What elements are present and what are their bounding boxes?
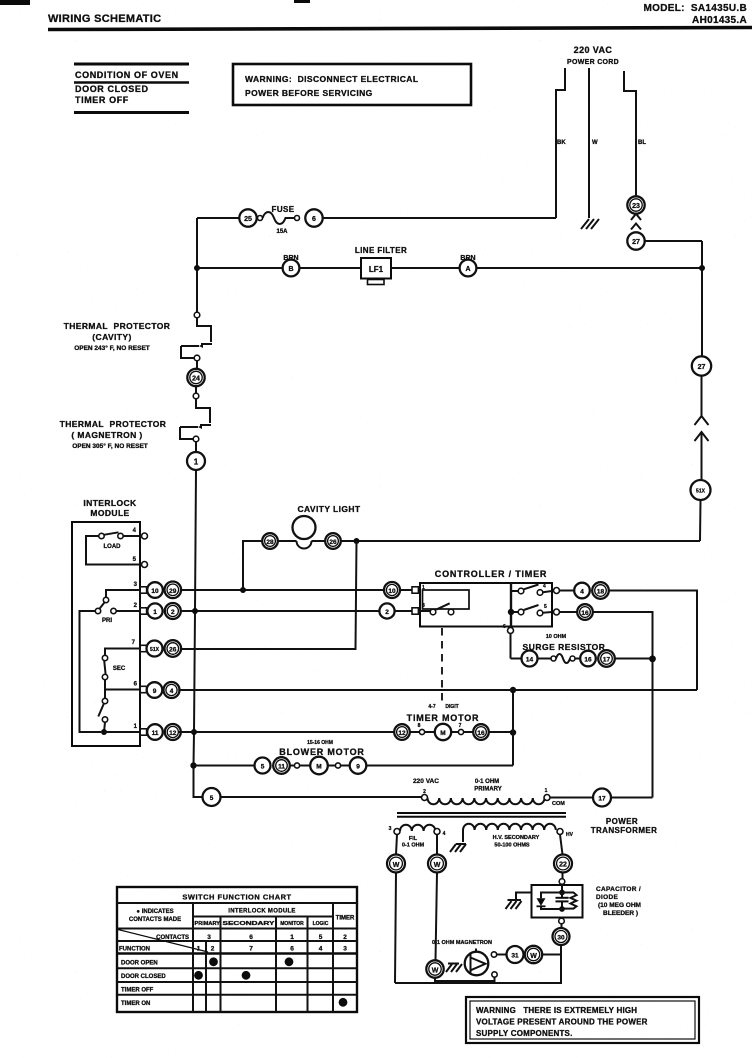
svg-text:W: W: [530, 953, 537, 960]
wire W1 down to rail: [395, 873, 396, 984]
svg-text:24: 24: [192, 376, 200, 383]
terminal pin5 circle: [554, 609, 560, 615]
wire fil4 down: [436, 835, 438, 855]
header bottom rule: [117, 928, 357, 930]
BRN LINE FILTER ROW: [194, 246, 705, 285]
svg-text:SURGE RESISTOR: SURGE RESISTOR: [523, 642, 606, 652]
svg-text:INTERLOCK: INTERLOCK: [83, 498, 137, 508]
svg-text:9: 9: [153, 688, 157, 695]
junction blower left: [190, 762, 196, 768]
wire cord white: [588, 68, 590, 218]
wire row6 long: [178, 689, 697, 691]
svg-text:220 VAC: 220 VAC: [413, 778, 439, 785]
wire com to 17: [550, 797, 593, 799]
pin 3 square: [140, 587, 146, 593]
core lines: [397, 812, 566, 814]
svg-text:LOAD: LOAD: [104, 544, 122, 550]
svg-text:TIMER OFF: TIMER OFF: [121, 988, 154, 994]
svg-text:1: 1: [153, 609, 157, 616]
svg-text:1: 1: [194, 458, 199, 467]
svg-text:12: 12: [398, 730, 406, 737]
wire circle5 row: [221, 796, 422, 798]
primary left terminal: [422, 795, 428, 801]
thermal protector magnetron switch: [196, 399, 210, 423]
svg-text:4: 4: [580, 589, 584, 596]
terminal circle 17b: [593, 789, 611, 807]
wire bus upper: [701, 241, 703, 356]
HEADER: [0, 0, 752, 30]
svg-text:LOGIC: LOGIC: [313, 921, 329, 927]
sec switch: [105, 649, 140, 656]
junction cavity left: [240, 587, 246, 593]
svg-text:6: 6: [290, 945, 294, 952]
svg-text:6: 6: [312, 216, 316, 223]
top edge mark: [294, 0, 310, 3]
svg-text:22: 22: [559, 862, 567, 869]
svg-text:W: W: [393, 862, 400, 869]
terminal circle 6: [305, 209, 322, 226]
magnetron tube V1: [465, 952, 489, 976]
svg-text:15-16 OHM: 15-16 OHM: [307, 740, 333, 746]
diode D: [541, 893, 562, 899]
svg-text:10 OHM: 10 OHM: [546, 634, 567, 640]
svg-text:0-1 OHM: 0-1 OHM: [402, 843, 425, 849]
wire 9b to vertical: [366, 765, 513, 767]
wire 27 to right bus: [645, 240, 702, 242]
terminal circle 11b: [273, 757, 290, 774]
timer contact 8: [419, 729, 424, 734]
svg-text:● INDICATES: ● INDICATES: [136, 909, 173, 915]
wire 14 to resistor: [538, 658, 552, 660]
svg-text:BLOWER MOTOR: BLOWER MOTOR: [279, 747, 364, 757]
wire A to right bus: [477, 267, 703, 269]
svg-text:SUPPLY COMPONENTS.: SUPPLY COMPONENTS.: [476, 1029, 573, 1038]
timer contact 7: [458, 729, 463, 734]
blower contact left: [294, 763, 299, 768]
svg-text:CAVITY LIGHT: CAVITY LIGHT: [297, 504, 360, 514]
wire to B: [197, 267, 283, 269]
wire 16 row: [560, 611, 578, 613]
svg-text:SEC: SEC: [113, 666, 126, 672]
wire to 24: [196, 361, 198, 369]
svg-text:17: 17: [598, 796, 606, 803]
table verticals: [192, 903, 194, 1012]
pin3 square: [412, 608, 418, 614]
wire fuse line left: [197, 217, 239, 219]
wire cavity left drop: [243, 541, 263, 590]
fil terminal 3: [394, 829, 400, 835]
svg-text:W: W: [432, 968, 439, 975]
svg-text:4: 4: [170, 688, 174, 695]
terminal circle 25: [239, 209, 256, 226]
wire M to contact7: [451, 731, 458, 733]
svg-text:PRIMARY: PRIMARY: [474, 787, 501, 793]
svg-text:27: 27: [698, 364, 706, 371]
terminal circle 12t: [394, 724, 410, 740]
wire contact7 to 16t: [464, 731, 474, 733]
svg-text:TRANSFORMER: TRANSFORMER: [591, 826, 658, 835]
junction cap bottom: [559, 906, 565, 912]
terminal circle 9: [147, 682, 163, 698]
wire pin6 down: [510, 634, 512, 659]
svg-text:FUNCTION: FUNCTION: [119, 947, 150, 953]
svg-text:CONDITION OF OVEN: CONDITION OF OVEN: [75, 70, 179, 80]
svg-text:29: 29: [169, 588, 177, 595]
terminal circle 26b: [165, 640, 182, 657]
wire label W circle 4: [525, 946, 542, 963]
wire contact to M: [300, 765, 310, 767]
cap box top terminal: [559, 879, 565, 885]
wire hv terminal to 22: [560, 835, 563, 855]
line filter tab: [368, 280, 385, 285]
wire 4 18 row: [560, 590, 575, 592]
svg-text:AH01435.A: AH01435.A: [692, 15, 747, 26]
vertical 513: [512, 690, 514, 766]
terminal circle 26: [325, 533, 341, 549]
terminal circle 10: [147, 582, 163, 598]
svg-text:220 VAC: 220 VAC: [574, 45, 613, 55]
wire label W circle 1: [387, 855, 405, 873]
terminal circle 4b: [164, 682, 180, 698]
wire cord blue: [624, 71, 636, 196]
svg-text:TIMER ON: TIMER ON: [121, 1001, 150, 1007]
svg-text:7: 7: [459, 723, 462, 729]
svg-text:1: 1: [422, 585, 425, 591]
terminal circle A: [460, 260, 477, 277]
terminal circle 4c: [574, 583, 590, 599]
wire blower left: [194, 765, 255, 767]
fil terminal bottom: [492, 972, 497, 977]
svg-text:11: 11: [278, 764, 285, 771]
capacitor C: [561, 893, 563, 898]
hv coil: [462, 830, 464, 842]
svg-text:WARNING: DISCONNECT ELECTRICA: WARNING: DISCONNECT ELECTRICAL: [245, 74, 418, 84]
junction row2 main vertical: [192, 608, 198, 614]
terminal circle 51Xb: [147, 641, 163, 657]
svg-text:TIMER MOTOR: TIMER MOTOR: [407, 713, 480, 723]
wire 12t to contact: [410, 731, 420, 733]
ground magnetron: [446, 964, 462, 973]
function bottom thick rule: [117, 952, 357, 954]
wire monitor to pin1: [104, 722, 105, 732]
junction cavity right: [354, 538, 360, 544]
thermal protector cavity switch: [194, 312, 200, 318]
ground branch from box: [516, 893, 532, 901]
warning box border outer: [466, 997, 699, 1043]
terminal circle 2c: [379, 603, 394, 618]
controller switch bottom: [514, 611, 518, 613]
module box: [72, 522, 140, 746]
wire break below 23: [631, 214, 641, 230]
svg-text:10: 10: [151, 588, 159, 595]
wire M to contact right: [328, 765, 336, 767]
wire to 30: [561, 924, 563, 928]
wire 17b to vertical: [611, 797, 653, 799]
terminal circle 16c: [577, 604, 593, 620]
svg-text:DOOR CLOSED: DOOR CLOSED: [75, 84, 149, 94]
terminal circle 51X: [691, 480, 711, 500]
POWER CORD: [556, 45, 702, 250]
svg-text:4: 4: [319, 945, 323, 952]
svg-text:7: 7: [249, 945, 253, 952]
svg-text:WIRING SCHEMATIC: WIRING SCHEMATIC: [48, 13, 161, 25]
svg-text:25: 25: [244, 216, 252, 223]
load wire: [86, 536, 142, 565]
svg-text:OPEN 243° F, NO RESET: OPEN 243° F, NO RESET: [74, 344, 150, 352]
svg-text:HV: HV: [566, 832, 574, 838]
wire lamp to 26: [312, 540, 326, 542]
terminal circle 5c: [203, 788, 221, 806]
svg-text:3: 3: [389, 826, 392, 832]
wire row3 to controller: [181, 589, 384, 591]
svg-text:M: M: [316, 764, 321, 771]
terminal circle 27: [627, 232, 644, 249]
fil terminal 4: [434, 829, 440, 835]
svg-text:LF1: LF1: [369, 265, 384, 274]
svg-text:31: 31: [511, 953, 519, 960]
svg-text:6: 6: [503, 624, 506, 630]
wire to 1: [195, 442, 197, 452]
svg-text:A: A: [465, 266, 470, 273]
pin6 circle below box: [508, 628, 514, 634]
svg-text:26: 26: [329, 539, 337, 546]
svg-text:TIMER: TIMER: [336, 916, 355, 922]
terminal circle B: [283, 260, 300, 277]
SURGE RESISTOR: [511, 634, 656, 667]
junction left: [194, 265, 200, 271]
controller divider: [510, 583, 512, 627]
wire bus middle: [701, 376, 703, 416]
wire 30 down: [560, 945, 562, 955]
svg-text:(CAVITY): (CAVITY): [92, 332, 131, 342]
wire to 31: [497, 954, 507, 956]
wire pin1: [104, 731, 140, 733]
FUSE ROW: [197, 205, 556, 268]
svg-text:CONTROLLER / TIMER: CONTROLLER / TIMER: [435, 569, 547, 579]
wire 17s to vertical: [615, 658, 653, 660]
svg-text:POWER BEFORE SERVICING: POWER BEFORE SERVICING: [245, 88, 373, 98]
svg-text:FUSE: FUSE: [272, 205, 295, 214]
svg-text:2: 2: [171, 609, 175, 616]
INTERLOCK MODULE: [72, 498, 181, 746]
line filter LF1 box: [361, 258, 391, 279]
pin 2 square: [140, 608, 146, 614]
load switch: [99, 533, 104, 538]
wire 16 to drop: [593, 612, 653, 798]
svg-text:POWER CORD: POWER CORD: [567, 59, 619, 66]
table outer box: [117, 887, 357, 1012]
terminal circle 23: [627, 196, 644, 213]
svg-text:14: 14: [526, 657, 534, 664]
terminal circle 14: [522, 651, 538, 667]
terminal circle 30: [553, 928, 570, 945]
wire contact to 9: [341, 765, 350, 767]
primary right terminal: [544, 795, 550, 801]
terminal circle 9b: [350, 757, 367, 774]
svg-text:2: 2: [385, 609, 389, 616]
svg-text:18: 18: [597, 589, 605, 596]
controller switch top: [511, 590, 518, 592]
wire into box: [561, 884, 563, 890]
svg-text:4-7: 4-7: [428, 704, 435, 710]
svg-text:1: 1: [197, 945, 201, 952]
svg-text:5: 5: [319, 934, 323, 941]
svg-text:B: B: [288, 266, 293, 273]
wire contact to M: [425, 731, 435, 733]
terminal circle 22: [554, 855, 572, 873]
MAGNETRON: [387, 835, 561, 984]
svg-text:12: 12: [169, 730, 177, 737]
terminal circle 31: [507, 946, 524, 963]
wire 24 to magnetron protector: [195, 386, 197, 393]
svg-text:17: 17: [603, 657, 611, 664]
wire label W circle 2: [428, 855, 446, 873]
TRANSFORMER: [389, 778, 658, 852]
ground power cord: [581, 219, 599, 229]
wire W4 to vertical: [542, 954, 561, 956]
svg-text:4: 4: [543, 584, 546, 590]
pin1 square: [412, 587, 418, 593]
svg-text:WARNING THERE IS EXTREMELY H: WARNING THERE IS EXTREMELY HIGH: [476, 1006, 637, 1015]
ground hv left: [450, 844, 466, 852]
terminal circle 27 right: [692, 356, 711, 375]
wire fil3 down: [396, 835, 397, 855]
svg-text:PRI: PRI: [102, 618, 112, 624]
terminal circle pin5: [142, 562, 148, 568]
svg-text:51X: 51X: [696, 489, 706, 495]
svg-text:9: 9: [356, 764, 360, 771]
svg-text:FIL: FIL: [409, 836, 418, 842]
terminal circle 1: [187, 452, 205, 470]
bottom rail: [395, 955, 561, 984]
svg-text:1: 1: [545, 788, 548, 794]
svg-text:DOOR OPEN: DOOR OPEN: [121, 961, 158, 967]
junction row1 main vertical: [191, 729, 197, 735]
terminal circle 2b: [165, 603, 181, 619]
svg-text:5: 5: [210, 795, 214, 802]
svg-text:MODEL: SA1435U.B: MODEL: SA1435U.B: [644, 3, 747, 14]
RIGHT BUS: [691, 241, 712, 541]
svg-text:W: W: [592, 140, 598, 146]
wire 26 to right bus: [341, 540, 700, 542]
wire cavity drop to row7: [181, 541, 357, 649]
svg-text:SECONDARY: SECONDARY: [223, 921, 276, 927]
wire 10b to controller: [400, 589, 412, 591]
svg-text:( MAGNETRON ): ( MAGNETRON ): [71, 430, 142, 440]
wire cord black: [556, 68, 565, 218]
junction surge vertical: [649, 655, 656, 662]
primary coil: [428, 798, 545, 804]
svg-text:3: 3: [343, 945, 347, 952]
junction right: [699, 265, 705, 271]
bleeder resistor: [562, 893, 577, 909]
svg-text:3: 3: [207, 934, 211, 941]
pin 6 square: [140, 686, 146, 692]
svg-text:INTERLOCK MODULE: INTERLOCK MODULE: [228, 909, 295, 915]
wire LF1 to A: [391, 267, 459, 269]
dashed link to timer motor: [441, 628, 443, 701]
terminal circle 28: [262, 533, 278, 549]
wire label W circle 3: [426, 960, 443, 977]
controller box: [420, 583, 552, 627]
warning box border: [233, 64, 471, 105]
svg-text:4: 4: [443, 831, 446, 837]
corner mark: [0, 0, 30, 5]
wire 16t to junction: [489, 731, 513, 733]
svg-text:27: 27: [632, 239, 640, 246]
cap box bottom terminal: [561, 917, 563, 920]
wire 22 to cap box: [562, 873, 564, 879]
left inner vertical: [80, 611, 102, 732]
pin 1 square: [140, 729, 146, 735]
WARNING TOP BOX: [233, 64, 471, 105]
blower contact right: [335, 763, 340, 768]
svg-text:M: M: [440, 730, 445, 737]
terminal circle 1b: [147, 603, 162, 618]
junction divider: [508, 609, 514, 615]
svg-text:50-100 OHMS: 50-100 OHMS: [494, 843, 529, 849]
svg-text:VOLTAGE PRESENT AROUND THE POW: VOLTAGE PRESENT AROUND THE POWER: [476, 1018, 648, 1027]
svg-text:30: 30: [557, 935, 565, 942]
svg-text:SWITCH FUNCTION CHART: SWITCH FUNCTION CHART: [182, 893, 291, 902]
wire resistor to 16: [575, 658, 580, 660]
wire fuse line right: [323, 217, 556, 219]
svg-text:8: 8: [418, 723, 421, 729]
svg-text:23: 23: [632, 203, 640, 210]
svg-text:16: 16: [477, 730, 485, 737]
terminal circle 29: [165, 582, 182, 599]
svg-text:16: 16: [581, 610, 589, 617]
svg-text:28: 28: [266, 539, 274, 546]
wire to 14: [511, 658, 522, 660]
WARNING BOTTOM BOX: [466, 997, 699, 1043]
svg-text:H.V. SECONDARY: H.V. SECONDARY: [493, 835, 540, 841]
svg-text:2: 2: [343, 934, 347, 941]
svg-text:26: 26: [169, 647, 177, 654]
svg-text:OPEN 305° F, NO RESET: OPEN 305° F, NO RESET: [72, 442, 148, 450]
svg-text:0-1 OHM: 0-1 OHM: [475, 779, 499, 785]
THERMAL PROTECTORS: [60, 268, 212, 797]
CONTROLLER TIMER: [412, 569, 697, 798]
wire bus lower to cavity line: [699, 500, 702, 541]
wire fuse drop left: [196, 218, 198, 268]
svg-text:1: 1: [290, 934, 294, 941]
lamp bulb: [293, 516, 316, 539]
svg-text:5: 5: [261, 764, 265, 771]
resistor R surge: [551, 656, 556, 661]
BLOWER MOTOR: [190, 740, 513, 806]
svg-text:MONITOR: MONITOR: [280, 921, 304, 927]
blower motor M: [310, 757, 328, 775]
fuse F1: [258, 216, 263, 221]
terminal circle 17s: [598, 650, 615, 667]
junction 513 row6: [510, 687, 516, 693]
svg-text:MODULE: MODULE: [90, 508, 129, 518]
wire 28 to lamp: [278, 540, 297, 542]
terminal pin4 circle: [554, 588, 560, 594]
svg-text:CONTACTS MADE: CONTACTS MADE: [129, 917, 181, 923]
junction timer vertical: [510, 729, 516, 735]
svg-text:11: 11: [152, 730, 159, 737]
svg-text:10: 10: [388, 588, 396, 595]
TABLE: [117, 887, 357, 1012]
pin 7 square: [140, 645, 146, 651]
CAVITY LIGHT: [181, 504, 700, 735]
condition bottom rule: [74, 111, 189, 114]
wire down from BRN junction: [196, 268, 198, 312]
capacitor diode box: [532, 885, 583, 918]
svg-text:DOOR CLOSED: DOOR CLOSED: [121, 974, 166, 980]
